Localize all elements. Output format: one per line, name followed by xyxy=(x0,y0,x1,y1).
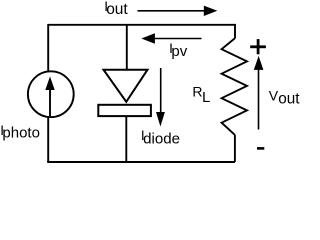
svg-text:diode: diode xyxy=(143,131,180,148)
svg-text:V: V xyxy=(269,87,279,103)
svg-text:R: R xyxy=(192,83,202,99)
svg-text:photo: photo xyxy=(2,125,40,142)
svg-text:out: out xyxy=(106,1,128,18)
svg-text:L: L xyxy=(202,89,210,106)
svg-text:pv: pv xyxy=(171,43,187,60)
svg-text:out: out xyxy=(278,90,300,107)
